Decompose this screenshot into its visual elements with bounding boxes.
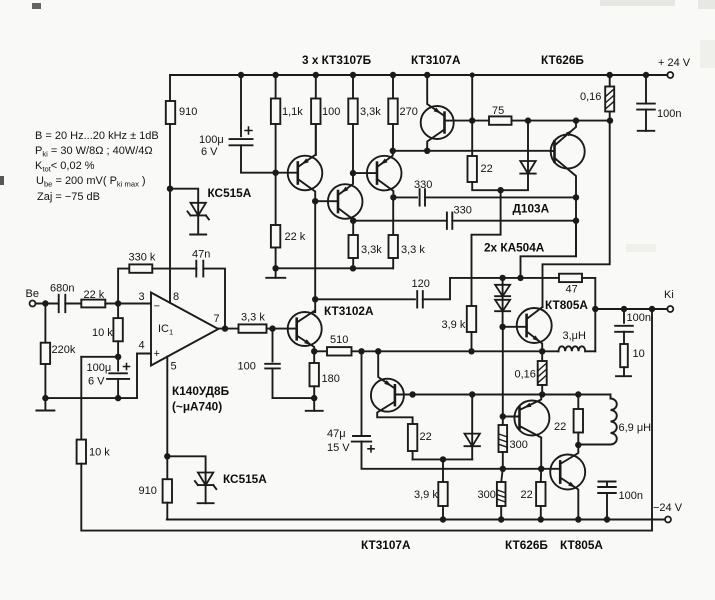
wire Q3 collector to 3,3k [392, 197, 394, 235]
wire drive line to 22 mid [577, 395, 579, 410]
wire 75-line b [512, 120, 611, 122]
svg-text:КТ626Б: КТ626Б [505, 538, 548, 552]
wire 75-line to 22 [471, 121, 473, 156]
svg-text:КТ805А: КТ805А [560, 538, 603, 552]
junction rail/3,3k [350, 72, 356, 78]
svg-text:КТ805А: КТ805А [545, 298, 588, 312]
svg-text:330: 330 [454, 205, 472, 217]
svg-text:180: 180 [322, 373, 340, 385]
junction rail/100u [238, 72, 244, 78]
resistor 22k bias [271, 225, 280, 248]
wire 22 lower to -24 rail [540, 506, 542, 520]
wire current-source line [393, 150, 551, 152]
junction 47-line collector branch [517, 275, 523, 281]
junction 3,9k/output line [468, 348, 474, 354]
resistor 300 upper [499, 425, 508, 452]
wire 6,9uH to 445 node [578, 444, 610, 446]
svg-text:Ki: Ki [664, 289, 674, 301]
svg-text:К140УД8Б: К140УД8Б [172, 384, 230, 398]
svg-text:22 k: 22 k [285, 231, 306, 243]
junction Ki/100n [621, 306, 627, 312]
svg-text:3,3k: 3,3k [360, 106, 381, 118]
junction KT3107A lower emitter [375, 348, 381, 354]
capacitor 100u 6V lower [107, 373, 129, 379]
wire KC515A lower stub [205, 485, 207, 503]
ground bar 180 [306, 410, 323, 412]
wire base node to 100 cap [272, 329, 274, 362]
wire 100n BR to -24 rail [606, 493, 608, 520]
svg-text:330: 330 [414, 179, 432, 191]
svg-text:3,3 k: 3,3 k [401, 244, 425, 256]
svg-text:300: 300 [510, 439, 528, 451]
svg-text:1,1k: 1,1k [282, 106, 303, 118]
junction drive/22 mid [575, 391, 581, 397]
wire feedback bottom [81, 309, 652, 531]
svg-text:10: 10 [633, 348, 645, 360]
junction 0,16 lower / drive line [539, 391, 545, 397]
svg-text:47μ: 47μ [327, 428, 346, 440]
resistor 3,3k mid-right [389, 235, 398, 258]
wire 22 mid to 445 node [577, 433, 579, 446]
wire 10 to ground [623, 367, 625, 376]
end bar 100n top-right [638, 130, 655, 132]
svg-text:100μ: 100μ [199, 134, 224, 146]
resistor 180 [310, 363, 319, 386]
wire 330k to 47n [152, 268, 196, 270]
resistor 3,9k upper [467, 306, 476, 332]
capacitor 100n bottom-right [598, 487, 616, 493]
junction Q1 base node [272, 170, 278, 176]
resistor 0,16 upper [605, 87, 614, 112]
junction KT805A emitter node [539, 348, 545, 354]
transistor Q2 KT3107B [315, 173, 362, 221]
capacitor 330 first [420, 189, 425, 205]
junction pin5 node [164, 453, 170, 459]
wire output line to 47u [361, 351, 363, 435]
wire 3uH to Ki riser [585, 350, 595, 352]
resistor 3,9k lower [438, 482, 447, 506]
wire ground stub 180 [313, 398, 315, 411]
transistor KT805A upper [503, 307, 552, 351]
junction feedback node [115, 354, 121, 360]
svg-text:75: 75 [492, 105, 504, 117]
junction bias column / KT626B lower base [500, 413, 506, 419]
junction diode top [525, 117, 531, 123]
capacitor 100u 6V upper [230, 139, 253, 145]
resistor 910 upper [166, 101, 175, 124]
wire 100u to ground line [117, 379, 119, 398]
resistor 22 lower [536, 482, 545, 506]
end bar KC515A upper [190, 234, 206, 236]
svg-text:КС515А: КС515А [208, 186, 252, 200]
svg-text:6,9 μH: 6,9 μH [619, 422, 652, 434]
wire inv input to 10k [117, 304, 119, 319]
wire 100u to Q1 base [241, 145, 298, 172]
wire 22 mid-upper to 459-line [412, 451, 414, 459]
wire 300 upper top lead [502, 417, 504, 426]
wire emitter node to 0,16 lower [541, 351, 543, 361]
resistor 3,3k horizontal [239, 324, 267, 332]
junction D103A line1 / KT626B collector [573, 194, 579, 200]
wire drive line corner to 6,9uH [610, 395, 612, 399]
wire 100n to 10 [623, 332, 625, 344]
svg-text:4: 4 [139, 340, 145, 352]
junction rail/100n BR [604, 516, 610, 522]
junction input/220k [42, 300, 48, 306]
wire pin5 node to 910 lower [166, 456, 168, 479]
wire 100 cap to gnd node [273, 368, 315, 398]
ground bar first stage [266, 277, 285, 279]
capacitor 100n top-right [637, 104, 655, 110]
terminal +24V [667, 72, 673, 78]
wire 220k to ground line [44, 364, 46, 398]
transistor KT626B lower [503, 395, 550, 469]
wire 3,9k lower to -24 rail [442, 506, 444, 520]
junction rail / KT3107A emitter [424, 72, 430, 78]
svg-text:3,3k: 3,3k [361, 244, 382, 256]
wire Q1 base node to 22k [275, 173, 277, 225]
resistor 910 lower [163, 479, 172, 503]
wire pin5 node to KC515A lower [167, 456, 205, 472]
wire 459 to 3,9k lower [442, 459, 444, 482]
svg-text:Be: Be [26, 288, 39, 300]
junction rail/300 lower [498, 516, 504, 522]
wire rail to 100 [315, 75, 317, 99]
svg-text:7: 7 [214, 313, 220, 325]
junction 100u/ground line [115, 395, 121, 401]
plus sign 100u upper [244, 126, 252, 134]
resistor 22 upper [468, 156, 477, 182]
junction rail/1,1k [272, 72, 278, 78]
svg-text:3,9 k: 3,9 k [442, 319, 466, 331]
wire rail to 0,16 [609, 75, 611, 87]
transistor KT805A lower [550, 445, 585, 520]
resistor 510 [327, 347, 352, 355]
wire rail to 3,3k first [352, 75, 354, 99]
wire 300 lower to -24 rail [500, 506, 502, 520]
wire 10k to fb node [117, 341, 119, 357]
wire 100 to Q1 emitter [315, 124, 317, 155]
wire rail to 910 [169, 75, 171, 101]
wire 47n to output [203, 269, 225, 329]
junction bias node 190 [497, 187, 503, 193]
wire 180 to ground [313, 386, 315, 398]
wire VAS collector riser [314, 201, 316, 312]
wire 3,3k to Q2 emitter node [352, 124, 354, 173]
wire Be to 680n [36, 303, 59, 305]
junction KT3107A lower base [409, 391, 415, 397]
junction rail/472 [470, 72, 475, 77]
svg-text:8: 8 [173, 291, 179, 303]
wire 22k to emitter ground line [275, 248, 277, 269]
transistor KT3102A [288, 311, 322, 351]
svg-text:330 k: 330 k [129, 252, 156, 264]
wire +24V rail [170, 74, 667, 76]
svg-text:270: 270 [400, 106, 418, 118]
svg-text:100: 100 [238, 361, 256, 373]
ground bar zobel [616, 375, 631, 377]
wire KT626B collector to 47-line [521, 221, 577, 278]
transistor Q3 KT3107B [353, 151, 402, 198]
svg-text:−: − [154, 301, 160, 313]
junction KT3102A emitter [311, 348, 317, 354]
resistor 0,16 lower [538, 361, 547, 385]
wire bias column down [502, 327, 504, 417]
capacitor 47n [196, 261, 203, 277]
svg-text:910: 910 [179, 106, 197, 118]
wire 22 upper to bias node [472, 182, 500, 190]
wire output to 3,3k h [218, 328, 238, 330]
wire output line mid [352, 350, 559, 352]
junction drive/diode [469, 391, 475, 397]
wire 1,1k to Q1 base node [275, 124, 277, 173]
wire fb node to 100u [117, 357, 119, 371]
capacitor 330 second [447, 213, 452, 229]
svg-text:680n: 680n [50, 283, 74, 295]
plus sign 100u lower [123, 363, 131, 371]
junction 469/KT626B lower collector [538, 466, 544, 472]
wire feedback riser left [80, 357, 82, 440]
junction 180/100cap ground [311, 395, 317, 401]
wire emitter to 180 [313, 351, 315, 363]
wire rail to 1,1k [275, 75, 277, 99]
resistor 100 [311, 99, 320, 125]
diode D103A upper [520, 161, 535, 174]
resistor 75 upper [489, 116, 512, 124]
capacitor 120 [417, 291, 423, 307]
wire 3,3k h to base [267, 328, 297, 330]
junction 120-line [312, 296, 318, 302]
plus sign 47u [367, 445, 375, 453]
wire 469 to 300 lower [501, 469, 503, 482]
svg-text:0,16: 0,16 [515, 369, 536, 381]
resistor 10k first [113, 318, 122, 341]
wire 47u to 469-line [362, 442, 561, 469]
wire input to 220k [44, 304, 46, 343]
wire rail to 75-line [471, 75, 473, 121]
wire KC515A upper stub [197, 215, 199, 234]
junction KT3102A base node [269, 325, 275, 331]
wire Ki rail [595, 308, 667, 310]
junction ground line left [272, 265, 278, 271]
svg-text:Д103А: Д103А [513, 202, 550, 216]
wire diodes top lead [502, 278, 504, 285]
diode KA504A first [495, 285, 510, 296]
wire 270 to Q3 emitter node [392, 124, 394, 151]
junction rail/KT805A emitter [575, 516, 581, 522]
wire 680n to 22k [65, 303, 81, 305]
svg-text:22 k: 22 k [84, 289, 105, 301]
capacitor 100n mid-right [615, 326, 633, 332]
resistor 3,3k top [348, 99, 357, 125]
wire 100n BR top stub [606, 482, 608, 488]
junction Q3 emitter node [390, 148, 396, 154]
wire between diodes [502, 296, 504, 300]
junction Ki rail left [592, 306, 598, 312]
svg-text:3: 3 [139, 291, 145, 303]
junction diodes top [499, 275, 505, 281]
wire to diode D103A upper [527, 121, 529, 161]
svg-text:КС515А: КС515А [223, 472, 267, 486]
junction ground line 3,3k [350, 265, 356, 271]
resistor 330k [129, 264, 152, 272]
junction ground line left [42, 395, 48, 401]
svg-text:КТ3102А: КТ3102А [324, 304, 374, 318]
wire 0,16 node down [543, 121, 610, 307]
svg-text:0,16: 0,16 [580, 91, 601, 103]
junction 0,16 bottom [607, 117, 613, 123]
svg-text:(~μА740): (~μА740) [172, 400, 222, 414]
junction 445 node [575, 442, 581, 448]
wire 120 line left [315, 298, 415, 300]
wire D103A line1 right [425, 196, 576, 198]
resistor 3,3k mid-left [349, 235, 358, 258]
svg-text:КТ3107А: КТ3107А [411, 53, 461, 67]
svg-text:22: 22 [521, 489, 533, 501]
wire D103A line2 left [353, 220, 447, 222]
wire rail to 100n TR [645, 75, 647, 104]
end bar KC515A lower [198, 502, 214, 504]
spec text block [35, 130, 159, 203]
junction diodes bottom / KT805A base [499, 324, 505, 330]
zener KC515A upper [188, 203, 209, 220]
svg-text:+ 24 V: + 24 V [658, 57, 691, 69]
wire Q2 collector to 3,3k [352, 221, 354, 235]
junction rail/3,9k lower [440, 516, 446, 522]
transistor KT626B upper [551, 121, 585, 257]
svg-text:15 V: 15 V [327, 442, 350, 454]
inductor 3uH [559, 346, 586, 351]
junction 469/300 upper [500, 466, 506, 472]
wire 47 to Ki riser [582, 278, 595, 351]
svg-text:120: 120 [412, 278, 430, 290]
wire drive line to diode mid [471, 395, 473, 434]
resistor 270 [388, 99, 397, 125]
resistor 22k input [81, 300, 105, 308]
zener KC515A lower [195, 473, 216, 490]
wire feedback left [81, 356, 118, 358]
svg-text:+: + [154, 348, 160, 360]
svg-text:6 V: 6 V [88, 376, 105, 388]
svg-text:22: 22 [554, 421, 566, 433]
svg-text:100n: 100n [657, 108, 681, 120]
junction KT626B emitter [573, 117, 579, 123]
op-amp IC1 [151, 293, 218, 366]
wire 100n TR stub [645, 110, 647, 131]
resistor 10 [620, 344, 628, 367]
junction 459/3,9k lower [440, 456, 446, 462]
wire 47-line [501, 277, 559, 279]
junction rail/270 [390, 72, 396, 78]
wire diode mid to 459-line [471, 446, 473, 459]
wire 3,3k mid-right to gnd line [392, 258, 394, 268]
junction Q1 collector / Q2 base / VAS [312, 198, 318, 204]
svg-text:300: 300 [478, 489, 496, 501]
svg-text:100μ: 100μ [87, 362, 112, 374]
resistor 1,1k [271, 99, 280, 125]
wire ground stub [275, 268, 277, 278]
junction 47u top [358, 348, 364, 354]
junction 910/KC515A [167, 186, 173, 192]
wire emitter ground line [276, 267, 393, 269]
svg-text:10 k: 10 k [92, 327, 113, 339]
transistor KT3107A lower [371, 351, 413, 424]
capacitor 100 [265, 364, 280, 369]
wire diodes bottom lead [502, 311, 504, 327]
svg-text:−24 V: −24 V [653, 502, 683, 514]
wire output line [314, 350, 327, 352]
wire diode D103A to bias node [501, 174, 528, 191]
svg-text:Pki = 30 W/8Ω ; 40W/4Ω: Pki = 30 W/8Ω ; 40W/4Ω [35, 145, 153, 159]
svg-text:КТ626Б: КТ626Б [541, 53, 584, 67]
svg-text:B = 20 Hz...20 kHz ± 1dB: B = 20 Hz...20 kHz ± 1dB [35, 130, 159, 142]
wire 910 to KC515A node and pin 8 [169, 124, 171, 303]
capacitor 47u 15V [352, 436, 371, 442]
junction Ki/feedback [649, 306, 655, 312]
wire 75-line a [472, 120, 489, 122]
wire 0,16 lower to drive line [541, 385, 543, 395]
svg-text:10 k: 10 k [89, 447, 110, 459]
wire -24V rail [167, 519, 665, 521]
junction KT3107A collector [424, 148, 430, 154]
resistor 300 lower [497, 482, 506, 506]
junction op-amp output [222, 325, 228, 331]
svg-text:КТ3107А: КТ3107А [361, 538, 411, 552]
wire pin4 to ground line [137, 354, 151, 399]
wire pin5 down [166, 357, 168, 457]
svg-text:5: 5 [171, 361, 177, 373]
junction D103A line2 / KT626B collector [573, 218, 579, 224]
terminal Ki [667, 306, 673, 312]
svg-text:3,3 k: 3,3 k [241, 312, 265, 324]
transistor KT3107A upper [421, 75, 473, 151]
svg-text:220k: 220k [52, 344, 76, 356]
resistor 22 mid [574, 409, 583, 433]
wire rail to 270 [392, 75, 394, 99]
wire inv input up [118, 269, 129, 304]
svg-text:510: 510 [330, 334, 348, 346]
svg-text:3 x КТ3107Б: 3 x КТ3107Б [302, 53, 372, 67]
svg-text:100n: 100n [627, 312, 651, 324]
svg-text:22: 22 [420, 431, 432, 443]
diode KA504A second [495, 300, 510, 311]
svg-text:47: 47 [566, 284, 578, 296]
svg-text:3,μH: 3,μH [563, 330, 587, 342]
junction Q2 emitter node [350, 170, 356, 176]
wire drive line [413, 394, 611, 396]
wire ground stub input [44, 398, 46, 410]
wire 459 line [413, 458, 473, 460]
capacitor 680n [59, 295, 66, 312]
svg-text:Zaj = −75 dB: Zaj = −75 dB [37, 191, 100, 203]
junction Q3 collector node [390, 194, 396, 200]
svg-text:100: 100 [322, 106, 340, 118]
resistor 10k second [77, 440, 86, 464]
svg-text:910: 910 [139, 485, 157, 497]
wire 3,3k mid-left to gnd line [352, 258, 354, 268]
diode bias mid [465, 434, 480, 447]
wire D103A line1 left [393, 196, 417, 198]
ground bar input [36, 410, 54, 412]
junction inverting input [115, 300, 121, 306]
svg-text:100n: 100n [619, 490, 643, 502]
inductor 6,9uH [611, 399, 617, 445]
wire 0,16 to 75-line [609, 112, 611, 121]
resistor 22 mid-upper [408, 424, 417, 451]
junction rail/0,16 [607, 72, 613, 78]
junction 75-line left [469, 117, 475, 123]
wire 3,9k upper to output line [471, 332, 473, 351]
